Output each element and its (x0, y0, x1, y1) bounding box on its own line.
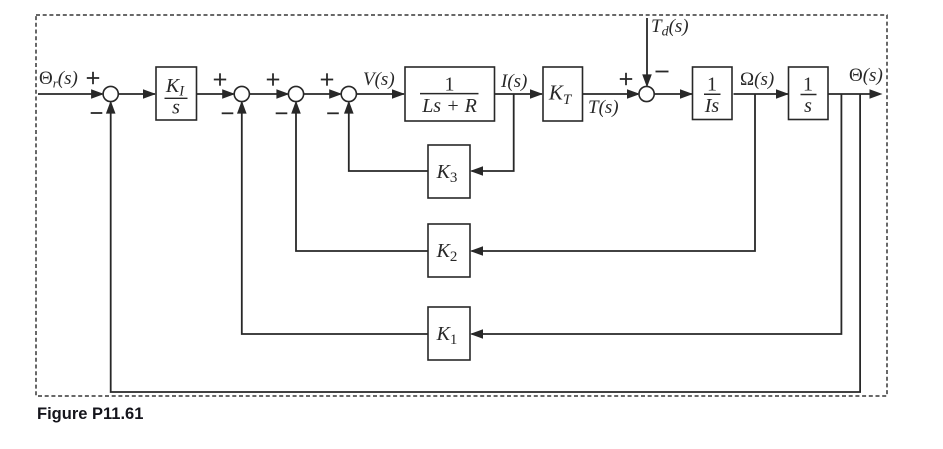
svg-text:Td(s): Td(s) (651, 16, 689, 40)
svg-text:Is: Is (704, 95, 720, 117)
svg-text:s: s (172, 97, 180, 119)
svg-text:1: 1 (445, 74, 455, 96)
svg-text:V(s): V(s) (363, 69, 395, 90)
svg-text:Θ(s): Θ(s) (849, 65, 883, 86)
svg-text:s: s (804, 95, 812, 117)
svg-text:Figure P11.61: Figure P11.61 (37, 405, 143, 423)
svg-text:Ω(s): Ω(s) (740, 69, 774, 90)
svg-text:Ls + R: Ls + R (421, 95, 477, 117)
svg-text:1: 1 (707, 73, 717, 95)
svg-text:T(s): T(s) (588, 97, 619, 118)
svg-text:1: 1 (803, 74, 813, 96)
svg-text:Θr(s): Θr(s) (39, 68, 78, 91)
svg-text:I(s): I(s) (500, 71, 527, 92)
